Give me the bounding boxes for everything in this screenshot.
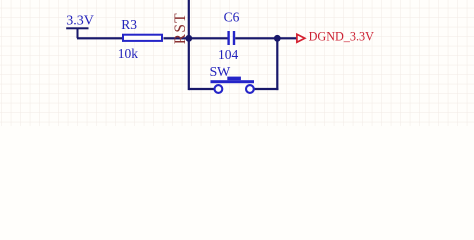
svg-text:104: 104 <box>218 47 239 62</box>
wire: right vertical to switch SW <box>276 38 278 90</box>
wire: capacitor C6 right plate to DGND port <box>235 37 297 39</box>
svg-text:10k: 10k <box>118 46 139 61</box>
resistor R3 <box>123 35 162 41</box>
svg-text:DGND_3.3V: DGND_3.3V <box>309 30 375 44</box>
wire: bottom left segment to switch SW left pin <box>189 88 215 90</box>
wire: resistor R3 right pin to capacitor C6 left plate <box>164 37 228 39</box>
junction: R3/C6 wire with RST wire <box>185 35 192 42</box>
junction: wire with right vertical wire <box>274 35 281 42</box>
svg-text:R3: R3 <box>121 17 137 32</box>
wire: vertical RST net wire <box>188 0 190 90</box>
svg-text:C6: C6 <box>224 9 240 24</box>
power port 3.3V <box>66 14 94 39</box>
switch SW <box>211 77 255 93</box>
capacitor C6 <box>227 31 235 45</box>
svg-text:SW: SW <box>210 65 231 80</box>
wire: power stub to resistor R3 left pin <box>77 37 123 39</box>
svg-text:3.3V: 3.3V <box>66 14 94 29</box>
wire: switch SW right pin to right vertical <box>254 88 279 90</box>
port arrow DGND_3.3V <box>297 34 305 42</box>
